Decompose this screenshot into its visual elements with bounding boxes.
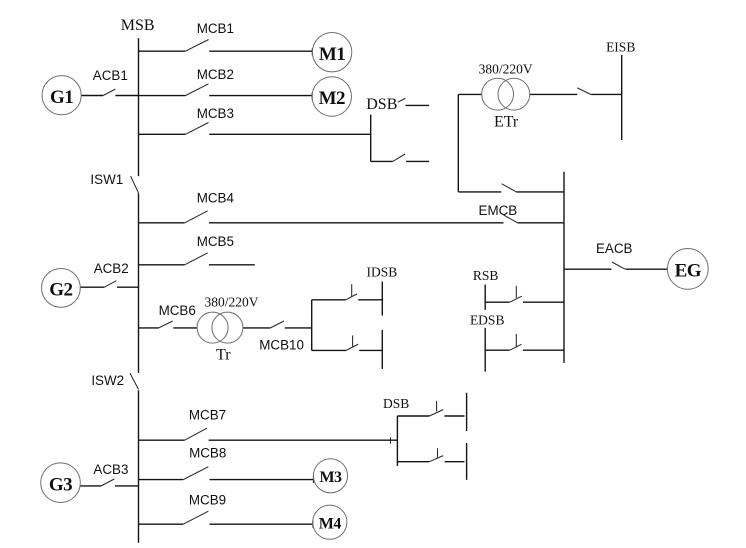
- breaker blade MCB1: [185, 40, 208, 52]
- motor M4 circle: [313, 505, 347, 539]
- wire IDSB lower branch right: [359, 349, 382, 351]
- wire MCB7 to DSB trunk: [209, 439, 398, 441]
- contact IDSB lower blade: [346, 344, 358, 350]
- breaker blade EACB: [612, 262, 625, 269]
- contact RSB tick: [515, 286, 517, 298]
- breaker blade MCB3: [185, 123, 208, 135]
- contact upper DSB top blade: [398, 98, 406, 102]
- svg-text:DSB: DSB: [366, 96, 397, 113]
- motor M2 circle: [312, 77, 351, 116]
- bus MSB lower segment: [138, 390, 140, 543]
- RSB trunk: [484, 285, 486, 310]
- wire IDSB lower branch left: [312, 349, 347, 351]
- IDSB trunk: [311, 300, 313, 351]
- svg-text:M3: M3: [319, 469, 342, 486]
- bus MSB middle segment: [138, 193, 140, 373]
- wire G1 to ACB1: [81, 95, 103, 97]
- svg-text:ISW1: ISW1: [90, 172, 123, 187]
- wire EDSB branch left: [485, 349, 509, 351]
- svg-text:DSB: DSB: [383, 396, 409, 411]
- svg-text:MCB10: MCB10: [259, 338, 304, 353]
- wire EMCB to emergency bus: [518, 222, 564, 224]
- wire Tr to MCB10: [243, 327, 271, 329]
- contact lower DSB lower tick: [437, 448, 439, 457]
- generator G2 circle: [42, 269, 81, 308]
- wire bus to MCB9: [139, 523, 184, 525]
- svg-text:ACB1: ACB1: [93, 68, 128, 83]
- wire bus to MCB8: [139, 479, 184, 481]
- junction tick M4: [312, 521, 314, 528]
- breaker blade MCB9: [183, 511, 208, 524]
- wire bus to MCB1: [139, 50, 186, 52]
- wire RSB branch left: [485, 301, 509, 303]
- svg-text:MCB5: MCB5: [197, 234, 234, 249]
- svg-text:380/220V: 380/220V: [205, 294, 259, 309]
- bus MSB upper segment: [138, 38, 140, 176]
- svg-text:EISB: EISB: [606, 39, 635, 54]
- disconnector ISW1 blade: [131, 176, 139, 193]
- contact lower DSB upper blade: [429, 410, 443, 416]
- wire lower DSB lower branch right: [445, 461, 465, 463]
- junction tick M3: [312, 476, 314, 483]
- breaker blade MCB8: [183, 467, 208, 480]
- wire ACB3 to bus: [115, 485, 139, 487]
- svg-text:G1: G1: [50, 87, 73, 108]
- generator G3 circle: [41, 463, 81, 503]
- wire MCB8 to M3: [210, 479, 314, 481]
- EISB terminal bar: [621, 55, 623, 140]
- wire lower DSB lower branch left: [397, 461, 429, 463]
- wire EACB to EG: [626, 268, 668, 270]
- contact IDSB lower tick: [352, 335, 354, 347]
- contact RSB blade: [510, 296, 522, 302]
- lower DSB upper terminal bar: [466, 393, 468, 431]
- emergency generator EG circle: [667, 249, 708, 290]
- IDSB upper terminal bar: [381, 282, 383, 316]
- breaker blade MCB5: [185, 253, 208, 265]
- breaker blade EISB feeder: [577, 88, 591, 95]
- breaker blade MCB2: [185, 84, 208, 96]
- breaker blade ACB3: [101, 479, 114, 486]
- wire lower DSB upper branch left: [397, 415, 429, 417]
- contact lower DSB lower blade: [429, 456, 443, 462]
- junction tick M1: [311, 48, 313, 55]
- emergency bus: [563, 172, 565, 363]
- wire IDSB upper branch right: [358, 299, 382, 301]
- contact upper DSB bottom blade: [393, 154, 405, 161]
- wire MCB2 to M2: [209, 95, 312, 97]
- disconnector ISW2 blade: [130, 373, 139, 389]
- upper DSB trunk: [370, 115, 372, 162]
- wire MCB10 to IDSB trunk: [285, 327, 312, 329]
- svg-text:MCB1: MCB1: [197, 21, 234, 36]
- wire emergency bus to EACB: [564, 268, 611, 270]
- wire G2 to ACB2: [80, 286, 104, 288]
- wire MCB4 to EMCB: [209, 222, 504, 224]
- contact lower DSB upper tick: [436, 401, 438, 412]
- wire ACB2 to bus: [117, 286, 139, 288]
- svg-text:EACB: EACB: [596, 241, 633, 256]
- wire bus to MCB3: [139, 133, 186, 135]
- wire MCB3 to DSB trunk: [209, 133, 371, 135]
- lower DSB trunk: [396, 416, 398, 466]
- wire MCB9 to M4: [210, 523, 313, 525]
- motor M1 circle: [312, 33, 351, 72]
- wire upper DSB bottom branch right: [406, 160, 429, 162]
- svg-text:ISW2: ISW2: [91, 373, 124, 388]
- contact IDSB upper tick: [351, 284, 353, 296]
- breaker blade ACB2: [104, 281, 116, 288]
- svg-text:MCB9: MCB9: [189, 493, 226, 508]
- svg-text:IDSB: IDSB: [367, 265, 398, 280]
- svg-text:MCB4: MCB4: [197, 191, 235, 206]
- breaker blade MCB10: [270, 321, 284, 328]
- breaker blade MCB4: [185, 211, 208, 223]
- wire bus to MCB6: [139, 327, 159, 329]
- wire bus to MCB5: [139, 264, 185, 266]
- svg-text:M1: M1: [319, 44, 345, 65]
- svg-text:RSB: RSB: [473, 268, 499, 283]
- wire MCB5 feeder stub: [209, 264, 255, 266]
- wire bus to MCB7: [139, 439, 185, 441]
- wire upper DSB bottom branch left: [371, 160, 393, 162]
- wire upper DSB top branch: [406, 104, 430, 106]
- generator G1 circle: [42, 76, 81, 115]
- svg-text:ETr: ETr: [494, 114, 519, 131]
- breaker blade ETr feed: [502, 184, 517, 192]
- svg-text:MSB: MSB: [121, 17, 155, 34]
- contact IDSB upper blade: [346, 294, 357, 300]
- wire ETr feed to emergency bus: [516, 191, 564, 193]
- svg-text:ACB2: ACB2: [94, 261, 129, 276]
- wire MCB1 to M1: [209, 50, 312, 52]
- wire ETr drop vertical: [457, 94, 459, 191]
- breaker blade ACB1: [103, 89, 115, 95]
- lower DSB lower terminal bar: [466, 443, 468, 480]
- motor M3 circle: [313, 459, 347, 493]
- EDSB trunk: [484, 328, 486, 372]
- wire lower DSB upper branch right: [444, 415, 464, 417]
- contact EDSB tick: [515, 334, 517, 347]
- wire ETr feed from drop: [458, 191, 501, 193]
- svg-text:MCB7: MCB7: [189, 408, 226, 423]
- IDSB lower terminal bar: [381, 330, 383, 369]
- breaker blade EMCB: [504, 215, 518, 223]
- svg-text:380/220V: 380/220V: [479, 61, 533, 76]
- svg-text:M4: M4: [319, 515, 342, 532]
- transformer Tr primary circle: [197, 312, 228, 343]
- wire ETr drop corner horizontal: [458, 93, 481, 95]
- svg-text:EG: EG: [675, 261, 702, 282]
- svg-text:MCB6: MCB6: [159, 303, 196, 318]
- wire bus to MCB2: [139, 95, 186, 97]
- svg-text:EMCB: EMCB: [479, 203, 518, 218]
- wire MCB6 to Tr: [173, 327, 197, 329]
- junction tick DSB feed: [390, 438, 392, 444]
- svg-text:MCB2: MCB2: [197, 67, 234, 82]
- wire bus to MCB4: [139, 222, 185, 224]
- svg-text:M2: M2: [319, 88, 345, 109]
- wire ETr to EISB breaker: [530, 93, 578, 95]
- breaker blade MCB7: [185, 428, 207, 440]
- svg-text:G3: G3: [49, 474, 72, 495]
- wire EISB breaker to EISB bar: [591, 93, 622, 95]
- svg-text:MCB3: MCB3: [197, 106, 234, 121]
- wire ACB1 to bus: [115, 95, 138, 97]
- svg-text:Tr: Tr: [216, 346, 231, 363]
- transformer ETr secondary circle: [498, 78, 530, 110]
- wire EDSB branch to emergency bus: [523, 349, 564, 351]
- contact EDSB blade: [510, 344, 522, 350]
- wire G3 to ACB3: [80, 485, 101, 487]
- svg-text:MCB8: MCB8: [189, 446, 226, 461]
- junction tick M2: [311, 93, 313, 100]
- svg-text:G2: G2: [49, 280, 72, 301]
- svg-text:ACB3: ACB3: [93, 462, 128, 477]
- breaker blade MCB6: [159, 321, 173, 328]
- transformer ETr primary circle: [482, 78, 514, 110]
- svg-text:EDSB: EDSB: [470, 312, 505, 327]
- wire RSB branch to emergency bus: [523, 301, 564, 303]
- transformer Tr secondary circle: [212, 312, 243, 343]
- wire IDSB upper branch left: [312, 299, 346, 301]
